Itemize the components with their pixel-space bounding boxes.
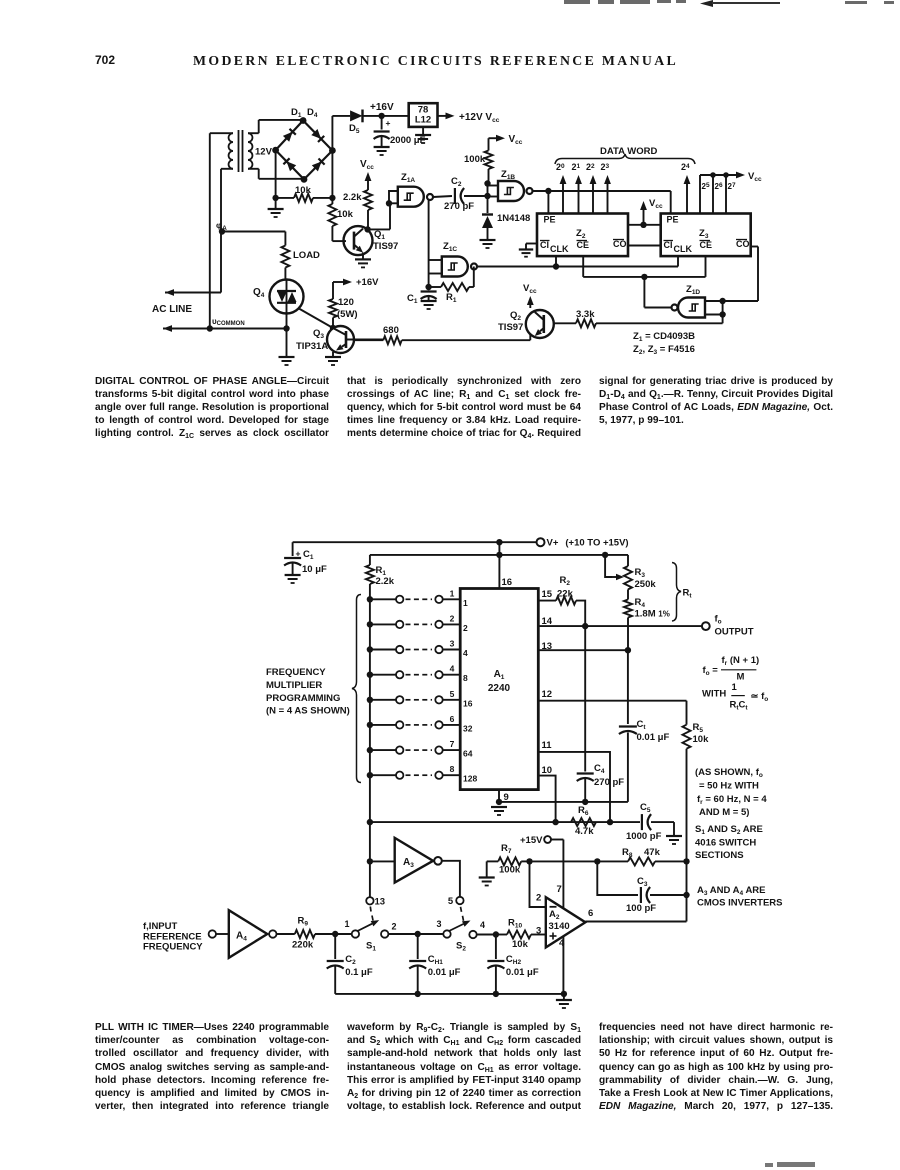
svg-text:Z1C: Z1C [443, 241, 457, 253]
svg-text:10 μF: 10 μF [302, 564, 327, 575]
svg-text:+12V Vcc: +12V Vcc [459, 112, 500, 124]
svg-text:2: 2 [392, 922, 397, 932]
svg-text:Vcc: Vcc [649, 198, 663, 210]
svg-text:(+10 TO +15V): (+10 TO +15V) [565, 538, 628, 549]
svg-text:C1: C1 [303, 549, 314, 561]
svg-text:2: 2 [536, 893, 541, 904]
svg-text:FREQUENCY: FREQUENCY [266, 667, 326, 678]
svg-text:26: 26 [715, 182, 723, 191]
svg-text:4: 4 [450, 664, 455, 674]
svg-text:250k: 250k [635, 579, 657, 590]
svg-text:≃ fo: ≃ fo [751, 691, 769, 703]
svg-text:+15V: +15V [520, 835, 543, 846]
svg-text:1: 1 [463, 598, 468, 608]
svg-text:120: 120 [338, 297, 354, 308]
svg-text:R4: R4 [635, 597, 646, 609]
svg-text:A3 AND A4 ARE: A3 AND A4 ARE [697, 885, 766, 897]
svg-text:Vcc: Vcc [748, 171, 762, 183]
svg-text:10: 10 [542, 765, 553, 776]
svg-text:Vcc: Vcc [523, 283, 537, 295]
svg-text:0.01 μF: 0.01 μF [637, 732, 670, 743]
svg-text:CH2: CH2 [506, 954, 522, 966]
svg-text:2: 2 [463, 623, 468, 633]
svg-text:CO: CO [736, 239, 750, 249]
svg-text:1: 1 [732, 682, 738, 693]
svg-text:270 pF: 270 pF [594, 777, 624, 788]
svg-text:16: 16 [502, 577, 513, 588]
svg-text:1.8M 1%: 1.8M 1% [635, 609, 670, 620]
svg-text:C1: C1 [407, 293, 418, 305]
svg-text:C4: C4 [594, 763, 605, 775]
svg-text:RtCt: RtCt [730, 700, 749, 712]
svg-text:Q2: Q2 [510, 310, 521, 322]
svg-text:M: M [737, 672, 745, 683]
svg-text:22k: 22k [557, 589, 574, 600]
svg-text:WITH: WITH [702, 689, 726, 700]
svg-text:1N4148: 1N4148 [497, 213, 530, 224]
svg-text:fr = 60 Hz, N = 4: fr = 60 Hz, N = 4 [697, 794, 767, 806]
svg-text:D4: D4 [307, 107, 318, 119]
svg-text:Z1B: Z1B [501, 169, 515, 181]
svg-text:TIS97: TIS97 [498, 322, 523, 333]
svg-text:S1: S1 [366, 941, 376, 953]
svg-text:23: 23 [601, 162, 610, 172]
svg-text:5: 5 [450, 689, 455, 699]
svg-text:15: 15 [542, 589, 553, 600]
svg-text:128: 128 [463, 774, 477, 784]
svg-text:5: 5 [448, 896, 454, 907]
svg-text:R3: R3 [635, 567, 646, 579]
svg-text:S2: S2 [456, 941, 466, 953]
svg-text:4.7k: 4.7k [575, 826, 594, 837]
svg-text:2240: 2240 [488, 683, 511, 694]
svg-text:22: 22 [586, 162, 595, 172]
svg-text:3: 3 [436, 919, 441, 929]
svg-text:R5: R5 [693, 722, 704, 734]
svg-text:L12: L12 [415, 115, 431, 126]
svg-text:Q3: Q3 [313, 328, 324, 340]
svg-text:fo: fo [715, 614, 722, 626]
svg-text:R2: R2 [560, 575, 571, 587]
svg-text:R8: R8 [622, 847, 633, 859]
svg-text:27: 27 [728, 182, 736, 191]
svg-text:8: 8 [450, 764, 455, 774]
svg-text:3: 3 [450, 639, 455, 649]
svg-text:Z1 = CD4093B: Z1 = CD4093B [633, 331, 695, 343]
svg-text:0.01 μF: 0.01 μF [428, 967, 461, 978]
svg-text:φA: φA [216, 220, 227, 232]
svg-text:Z1A: Z1A [401, 172, 415, 184]
svg-text:16: 16 [463, 698, 473, 708]
svg-text:21: 21 [572, 162, 581, 172]
svg-text:3: 3 [536, 926, 541, 937]
svg-text:CE: CE [700, 240, 713, 250]
svg-text:PE: PE [667, 215, 679, 225]
svg-text:2: 2 [450, 613, 455, 623]
svg-text:10k: 10k [337, 209, 354, 220]
svg-text:(AS SHOWN, fo: (AS SHOWN, fo [695, 767, 763, 779]
svg-text:R1: R1 [376, 565, 387, 577]
svg-text:4: 4 [480, 920, 485, 930]
svg-text:10k: 10k [512, 939, 529, 950]
svg-text:680: 680 [383, 325, 399, 336]
svg-text:TIP31A: TIP31A [296, 341, 328, 352]
svg-text:PROGRAMMING: PROGRAMMING [266, 693, 340, 704]
svg-text:AC LINE: AC LINE [152, 304, 192, 315]
svg-text:4016 SWITCH: 4016 SWITCH [695, 838, 756, 849]
svg-text:TIS97: TIS97 [373, 241, 398, 252]
svg-text:+: + [386, 118, 391, 128]
svg-text:R9: R9 [298, 916, 309, 928]
svg-text:2.2k: 2.2k [343, 192, 362, 203]
svg-text:12V: 12V [255, 147, 273, 158]
svg-text:+16V: +16V [356, 277, 379, 288]
svg-text:R1: R1 [446, 292, 457, 304]
svg-text:LOAD: LOAD [293, 250, 320, 261]
svg-text:20: 20 [556, 162, 565, 172]
svg-text:100k: 100k [499, 865, 521, 876]
svg-text:12: 12 [542, 689, 553, 700]
svg-text:1: 1 [450, 588, 455, 598]
svg-text:Q1: Q1 [374, 229, 385, 241]
svg-text:CI: CI [540, 240, 549, 250]
svg-text:Rt: Rt [683, 588, 693, 600]
svg-text:7: 7 [557, 884, 562, 895]
svg-text:S1 AND S2 ARE: S1 AND S2 ARE [695, 824, 763, 836]
svg-text:8: 8 [463, 673, 468, 683]
svg-text:fr (N + 1): fr (N + 1) [722, 655, 760, 667]
svg-text:C5: C5 [640, 802, 651, 814]
svg-text:C2: C2 [451, 176, 462, 188]
svg-text:11: 11 [542, 740, 553, 751]
svg-text:FREQUENCY: FREQUENCY [143, 942, 203, 953]
svg-text:220k: 220k [292, 940, 314, 951]
svg-text:PE: PE [544, 215, 556, 225]
svg-text:2000 μF: 2000 μF [390, 135, 426, 146]
svg-text:Z2, Z3 = F4516: Z2, Z3 = F4516 [633, 344, 695, 356]
svg-text:270 pF: 270 pF [444, 201, 474, 212]
svg-text:2.2k: 2.2k [376, 576, 395, 587]
svg-text:MULTIPLIER: MULTIPLIER [266, 680, 322, 691]
svg-text:Z1D: Z1D [686, 284, 700, 296]
svg-text:3140: 3140 [549, 921, 570, 932]
svg-text:1: 1 [344, 919, 349, 929]
svg-text:1000 pF: 1000 pF [626, 831, 662, 842]
svg-text:13: 13 [375, 897, 386, 908]
svg-text:6: 6 [450, 714, 455, 724]
svg-text:CI: CI [664, 240, 673, 250]
svg-text:25: 25 [702, 182, 710, 191]
svg-text:CMOS INVERTERS: CMOS INVERTERS [697, 898, 783, 909]
svg-text:Ct: Ct [637, 719, 647, 731]
svg-text:D1: D1 [291, 107, 302, 119]
svg-text:(5W): (5W) [337, 309, 358, 320]
svg-text:CE: CE [577, 240, 590, 250]
svg-text:V+: V+ [547, 538, 559, 549]
svg-text:(N = 4 AS SHOWN): (N = 4 AS SHOWN) [266, 706, 350, 717]
svg-text:64: 64 [463, 749, 473, 759]
svg-text:R6: R6 [578, 805, 589, 817]
svg-text:6: 6 [588, 908, 593, 919]
svg-text:SECTIONS: SECTIONS [695, 850, 744, 861]
svg-text:4: 4 [463, 648, 468, 658]
svg-text:0.1 μF: 0.1 μF [345, 967, 373, 978]
svg-text:= 50 Hz WITH: = 50 Hz WITH [699, 781, 759, 792]
svg-text:100k: 100k [464, 154, 486, 165]
svg-text:fo =: fo = [703, 665, 719, 677]
svg-text:Vcc: Vcc [509, 134, 523, 146]
svg-text:3.3k: 3.3k [576, 309, 595, 320]
svg-text:DATA WORD: DATA WORD [600, 146, 657, 157]
svg-text:Vcc: Vcc [360, 159, 374, 171]
svg-text:0.01 μF: 0.01 μF [506, 967, 539, 978]
svg-text:32: 32 [463, 723, 473, 733]
svg-text:+16V: +16V [370, 102, 394, 113]
svg-text:24: 24 [681, 162, 690, 172]
svg-text:C2: C2 [345, 954, 356, 966]
svg-text:10k: 10k [693, 734, 710, 745]
svg-text:100 pF: 100 pF [626, 903, 656, 914]
svg-text:R10: R10 [508, 918, 522, 930]
svg-text:R7: R7 [501, 843, 512, 855]
svg-text:CH1: CH1 [428, 954, 444, 966]
svg-text:CLK: CLK [674, 244, 693, 254]
svg-text:CO: CO [613, 239, 627, 249]
svg-text:υCOMMON: υCOMMON [212, 317, 245, 327]
svg-text:D5: D5 [349, 123, 360, 135]
svg-text:7: 7 [450, 739, 455, 749]
svg-text:C3: C3 [637, 876, 648, 888]
svg-text:Q4: Q4 [253, 287, 265, 299]
svg-text:CLK: CLK [550, 244, 569, 254]
svg-text:10k: 10k [295, 185, 312, 196]
svg-text:AND M = 5): AND M = 5) [699, 807, 749, 818]
svg-text:47k: 47k [644, 847, 661, 858]
svg-text:OUTPUT: OUTPUT [715, 627, 754, 638]
